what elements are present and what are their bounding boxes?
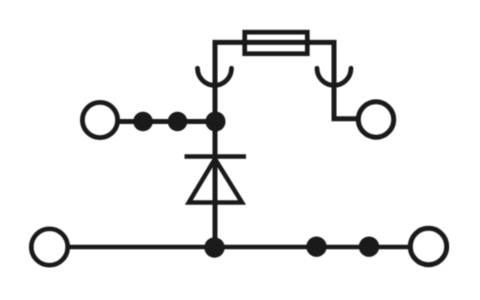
diode D1 triangle: [189, 159, 242, 203]
junction dot (upper): [206, 112, 226, 132]
wire: top fuse loop (left corner, top run, right corner): [215, 42, 334, 46]
junction dot (bottom): [204, 237, 224, 257]
contact dot 2 (upper row): [168, 112, 188, 132]
terminal circle upper-left: [82, 102, 117, 137]
diode D1 cathode bar: [185, 154, 247, 159]
disconnect contact arc (right): [317, 68, 351, 85]
wire: upper-left horizontal run: [117, 119, 216, 124]
disconnect contact arc (left): [198, 68, 232, 85]
fuse F1 body: [245, 32, 308, 54]
wire: bottom horizontal run: [68, 245, 410, 250]
contact dot 1 (upper row): [133, 112, 153, 132]
terminal circle upper-right: [358, 102, 393, 137]
contact dot 1 (bottom row): [306, 237, 326, 257]
terminal circle bottom-left: [31, 229, 67, 265]
wire: center vertical conductor (corner to bottom junction): [213, 42, 218, 247]
terminal circle bottom-right: [410, 228, 446, 264]
contact dot 2 (bottom row): [359, 237, 379, 257]
wire: right vertical down to right terminal: [334, 42, 357, 118]
